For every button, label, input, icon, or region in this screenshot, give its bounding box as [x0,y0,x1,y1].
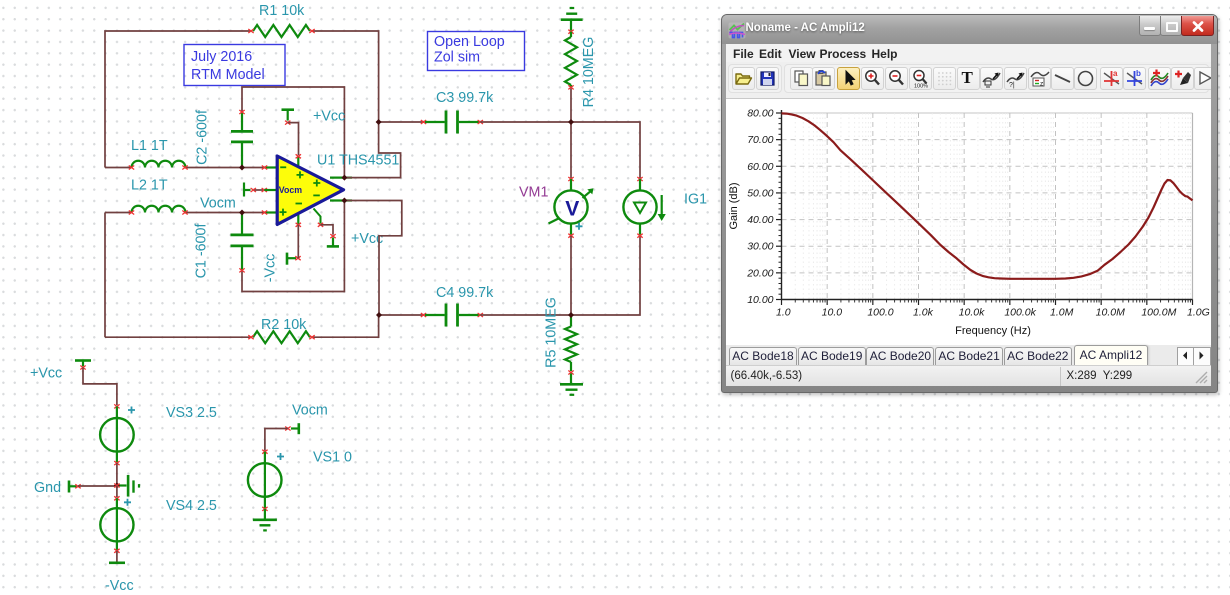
toolbar button zoom out [885,67,908,90]
wire VS3 to Gnd node [116,463,118,485]
terminal +Vcc (PD pull-up) [327,234,339,246]
svg-text:Vocm: Vocm [200,196,236,212]
node bottom rail (R5/VM1) [568,312,574,318]
node A (R1/OUT+/C3) [376,119,382,125]
wire Vocm terminal to VS1 [265,429,288,451]
wire node B to C4 [379,314,424,316]
window title text [746,22,865,34]
svg-text:1.0: 1.0 [776,306,791,318]
svg-text:z: z [1040,80,1043,87]
resistor R5 [565,315,577,383]
wire Gnd node to VS4 [116,486,118,498]
svg-text:20.00: 20.00 [746,267,773,279]
svg-text:Frequency (Hz): Frequency (Hz) [955,325,1031,337]
wire OUT- to node B [344,201,401,316]
op-amp U1 input polarity marks [280,167,321,215]
ground (below VS1) [253,509,277,531]
svg-text:1.0M: 1.0M [1050,306,1074,318]
svg-text:1.0G: 1.0G [1187,306,1210,318]
node top rail (R4/VM1) [568,119,574,125]
svg-text:10.0M: 10.0M [1095,306,1124,318]
label C2 -600f [194,110,210,165]
voltage source VS1 [248,450,284,511]
wire PD pin to +Vcc terminal [321,225,334,235]
toolbar button cursor b [1004,67,1027,90]
svg-text:Open Loop: Open Loop [434,34,505,50]
op-amp U1 PD pin (diagonal) [314,209,324,227]
svg-text:V: V [565,198,579,221]
toolbar button text [957,67,980,90]
svg-text:10.0k: 10.0k [958,306,984,318]
wire L1 row (input to IN-) [105,167,264,169]
svg-text:40.00: 40.00 [747,214,773,226]
voltage source VS4 [100,496,133,553]
toolbar button zoom 100% [909,67,932,90]
label -Vcc (rotated) [262,254,278,283]
svg-text:VS4 2.5: VS4 2.5 [166,498,217,514]
terminal Gnd [69,481,81,493]
label R1 10k [259,3,305,19]
wire top rail to IG1 [571,122,640,179]
ground (bottom, R5) [560,384,583,395]
toolbar button save [756,67,779,90]
wire R4 to node [570,89,572,123]
wire C4 to R5/VM1 node [480,314,571,316]
label C3 99.7k [436,90,494,106]
svg-text:C4 99.7k: C4 99.7k [436,285,494,301]
label +Vcc (top) [313,109,345,125]
op-amp U1 output pins OUT+ OUT- [330,178,352,201]
svg-text:100.0M: 100.0M [1141,306,1176,318]
op-amp U1 pin IN+ (green stub) [262,211,278,215]
svg-text:60.00: 60.00 [747,160,773,172]
svg-text:-Vcc: -Vcc [262,254,278,283]
wire op-amp top supply [288,123,299,155]
svg-text:100.0k: 100.0k [1004,306,1036,318]
resistor R4 [565,30,577,90]
ground (top, R4) [561,8,583,31]
wire VS4 to -Vcc terminal [116,551,118,563]
status bar [726,365,1211,387]
label L2 1T [131,178,168,194]
toolbar button open [732,67,755,90]
node IN- junction [239,165,245,171]
toolbar button legend [1028,67,1051,90]
svg-text:C2 -600f: C2 -600f [194,110,210,165]
svg-text:C1 -600f: C1 -600f [193,224,209,279]
maximize button [1160,16,1182,36]
annotation box Open Loop Zol sim [428,32,525,71]
svg-text:-Vcc: -Vcc [105,578,134,594]
inductor L2 [129,206,188,215]
chart panel [726,98,1211,346]
node OUT- junction [341,198,347,204]
op-amp U1 pin Vocm terminal [244,183,278,197]
wire node A to C3 [379,121,424,123]
close button [1181,16,1214,36]
toolbar button paste [812,67,835,90]
label C1 -600f [193,224,209,279]
svg-text:+Vcc: +Vcc [313,109,345,125]
node Gnd junction [114,483,120,489]
svg-text:L2 1T: L2 1T [131,178,168,194]
svg-text:R4 10MEG: R4 10MEG [581,37,597,108]
label VS4 2.5 [166,498,217,514]
label U1 THS4551 [317,153,399,169]
label IG1 [684,192,707,208]
menu bar [726,44,1211,63]
wire R2 row [105,315,379,337]
svg-text:+Vcc: +Vcc [30,366,62,382]
wire C3 to VM1/R4 node [480,121,571,123]
svg-text:L1 1T: L1 1T [131,138,168,154]
window title bar [722,15,1217,44]
wire C2 feedback (node over op-amp) [242,87,344,178]
svg-text:100%: 100% [914,83,928,89]
label R4 10MEG [581,37,597,108]
svg-text:Gnd: Gnd [34,480,61,496]
op-amp U1 power pin top [296,154,301,172]
toolbar button grid (disabled) [933,67,956,90]
label VS1 0 [313,450,352,466]
annotation box July 2016 RTM Model [184,45,285,86]
svg-text:VS3 2.5: VS3 2.5 [166,405,217,421]
wire op-amp bottom supply [297,225,299,258]
svg-text:R1 10k: R1 10k [259,3,305,19]
svg-text:R5 10MEG: R5 10MEG [543,297,559,368]
inductor L1 [129,161,188,170]
svg-text:a: a [1113,69,1118,78]
wire C1 bottom feedback [242,201,344,292]
wire L2 row (input to IN+) [105,213,264,338]
toolbar button crosshair a (red) [1100,67,1123,90]
tab bar [726,345,1211,365]
svg-text:RTM Model: RTM Model [191,67,265,83]
label R2 10k [261,317,307,333]
terminal -Vcc (op-amp bottom supply) [287,253,301,265]
terminal +Vcc (op-amp top supply) [282,110,295,125]
window icon (chart) [728,22,746,39]
resistor R2 [248,331,314,343]
op-amp U1 Vocm pin text [279,185,302,195]
label -Vcc (supply) [105,578,134,594]
toolbar [726,62,1211,98]
op-amp U1 power pin bottom [296,208,301,227]
svg-text:80.00: 80.00 [747,107,773,119]
toolbar button select cursor (active) [837,67,860,90]
svg-text:U1 THS4551: U1 THS4551 [317,153,399,169]
wire Gnd to node [78,485,117,487]
gain curve [781,113,1192,278]
toolbar button line [1051,67,1074,90]
plot axes and tick labels [728,107,1210,337]
current source IG1 [623,177,665,238]
terminal +Vcc (supply rail) [75,361,91,370]
ground (right-pointing, at Gnd node) [118,475,139,497]
svg-text:R2 10k: R2 10k [261,317,307,333]
label L1 1T [131,138,168,154]
svg-text:10.00: 10.00 [747,294,773,306]
toolbar button curves add [1148,67,1171,90]
terminal -Vcc (supply rail) [109,561,125,564]
capacitor C3 [421,111,483,134]
svg-text:Gain (dB): Gain (dB) [728,182,740,229]
toolbar button ellipse [1074,67,1097,90]
node OUT+ junction [341,175,347,181]
svg-text:?|: ?| [1009,82,1015,89]
voltmeter VM1 [549,122,594,315]
svg-text:70.00: 70.00 [747,134,773,146]
svg-text:Vocm: Vocm [292,403,328,419]
label R5 10MEG [543,297,559,368]
label C4 99.7k [436,285,494,301]
toolbar button flag [1194,67,1217,90]
capacitor C4 [421,304,483,327]
wire bottom rail to IG1 [571,236,640,315]
svg-text:C3 99.7k: C3 99.7k [436,90,494,106]
toolbar button cursor a [980,67,1003,90]
node IN+ junction [239,210,245,216]
svg-text:VS1 0: VS1 0 [313,450,352,466]
svg-text:50.00: 50.00 [747,187,773,199]
label +Vcc (right) [351,231,383,247]
wire top feedback loop (R1 net: IN- to node A) [105,31,379,168]
op-amp U1 pin IN- (green stub) [262,166,278,170]
wire +Vcc to VS3 [83,368,117,406]
svg-text:30.00: 30.00 [747,240,773,252]
label VS3 2.5 [166,405,217,421]
svg-text:IG1: IG1 [684,192,707,208]
svg-text:b: b [1136,69,1141,78]
minimize button [1139,16,1161,36]
toolbar button zoom in [861,67,884,90]
capacitor C2 [231,110,253,168]
voltage source VS3 [100,404,135,465]
capacitor C1 [231,213,254,273]
label Gnd [34,480,61,496]
svg-text:100.0: 100.0 [867,306,893,318]
plot gridlines [781,113,1192,300]
op-amp U1 THS4551 triangle body [277,156,343,224]
toolbar button copy [790,67,813,90]
net label Vocm (IN+ wire) [200,196,236,212]
wire OUT+ to node A [344,122,400,178]
svg-text:Vocm: Vocm [279,185,302,195]
toolbar button crosshair b (blue) [1123,67,1146,90]
svg-text:Zol sim: Zol sim [434,50,480,66]
label Vocm (terminal) [292,403,328,419]
resistor R1 [248,25,314,37]
svg-text:VM1: VM1 [519,185,548,201]
node B (R2/OUT-/C4) [376,312,382,318]
svg-text:July 2016: July 2016 [191,49,252,65]
svg-text:1.0k: 1.0k [913,306,934,318]
label +Vcc (supply) [30,366,62,382]
svg-text:10.0: 10.0 [821,306,842,318]
label VM1 [519,185,548,201]
toolbar button pen add [1171,67,1194,90]
terminal Vocm (VS1 output) [285,423,299,434]
